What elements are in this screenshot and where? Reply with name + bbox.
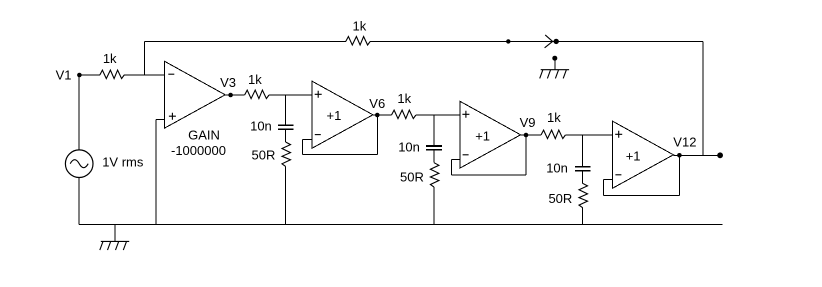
svg-text:V6: V6 bbox=[369, 96, 385, 111]
svg-text:1V rms: 1V rms bbox=[102, 154, 144, 169]
svg-text:V3: V3 bbox=[220, 75, 236, 90]
svg-text:1k: 1k bbox=[397, 91, 411, 106]
svg-text:V12: V12 bbox=[673, 135, 696, 150]
svg-text:10n: 10n bbox=[250, 118, 272, 133]
svg-text:1k: 1k bbox=[248, 72, 262, 87]
svg-text:1k: 1k bbox=[103, 51, 117, 66]
svg-text:50R: 50R bbox=[548, 191, 572, 206]
svg-text:+1: +1 bbox=[626, 149, 641, 164]
svg-text:50R: 50R bbox=[400, 169, 424, 184]
svg-text:10n: 10n bbox=[398, 139, 420, 154]
svg-text:+1: +1 bbox=[327, 108, 342, 123]
svg-text:1k: 1k bbox=[353, 18, 367, 33]
svg-text:V9: V9 bbox=[520, 115, 536, 130]
svg-text:1k: 1k bbox=[547, 110, 561, 125]
svg-text:-1000000: -1000000 bbox=[171, 143, 226, 158]
svg-text:50R: 50R bbox=[252, 148, 276, 163]
svg-text:GAIN: GAIN bbox=[188, 128, 220, 143]
svg-text:10n: 10n bbox=[546, 161, 568, 176]
svg-text:V1: V1 bbox=[56, 67, 72, 82]
svg-text:+1: +1 bbox=[475, 129, 490, 144]
